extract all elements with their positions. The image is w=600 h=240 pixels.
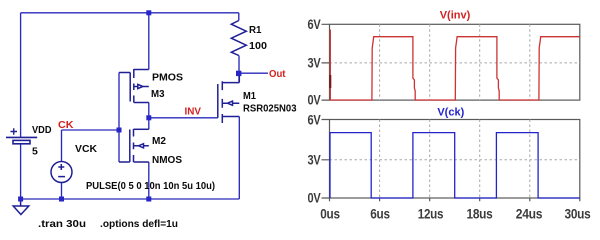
battery VDD (6, 137, 37, 143)
plot V(ck) y ticks (322, 120, 330, 199)
svg-text:30us: 30us (565, 206, 591, 221)
wire PMOS source down to INV node (148, 103, 150, 118)
plot V(inv) gridlines (330, 24, 580, 100)
svg-text:CK: CK (58, 119, 74, 131)
nmos M1 power fet (218, 73, 240, 123)
svg-text:3V: 3V (308, 153, 321, 168)
plot V(ck) blue trace (330, 133, 580, 198)
wire NMOS M2 drain up to INV node (148, 118, 150, 130)
voltage source VCK (51, 162, 72, 183)
svg-text:0us: 0us (320, 206, 340, 221)
plot V(ck) x labels (320, 206, 590, 221)
wire Out stub (239, 72, 268, 74)
plot V(inv) frame (330, 24, 580, 100)
wire NMOS M2 source down to ground rail (148, 162, 150, 199)
wire gate bus vertical PMOS/NMOS gates (118, 73, 120, 163)
svg-text:24us: 24us (516, 206, 543, 221)
svg-text:0V: 0V (308, 93, 321, 108)
wire R1 bottom to Out node to M1 drain (238, 56, 240, 83)
svg-text:12us: 12us (418, 206, 444, 221)
svg-text:18us: 18us (467, 206, 493, 221)
svg-text:V(ck): V(ck) (437, 106, 464, 118)
svg-text:PMOS: PMOS (152, 72, 183, 84)
svg-text:V(inv): V(inv) (440, 10, 471, 22)
wire battery bottom to ground rail (20, 144, 22, 199)
wire R1 top bend (238, 13, 240, 21)
svg-text:INV: INV (185, 106, 202, 118)
wire VCK bottom stub (61, 183, 63, 200)
junction INV node (146, 115, 151, 120)
svg-text:Out: Out (269, 68, 286, 80)
svg-text:6V: 6V (308, 112, 321, 127)
svg-text:VDD: VDD (32, 124, 52, 136)
ground (13, 199, 29, 215)
plot V(ck) frame (330, 120, 580, 199)
junction top rail / PMOS branch (146, 10, 151, 15)
wire VCK top stub (61, 130, 63, 162)
wire PMOS drain branch from top rail (148, 13, 150, 70)
svg-text:NMOS: NMOS (152, 154, 182, 166)
svg-text:100: 100 (249, 40, 267, 52)
plot V(ck) x ticks (330, 198, 580, 201)
wire M1 source / rail corner up (238, 117, 240, 200)
svg-text:.tran 30u: .tran 30u (38, 218, 86, 230)
svg-text:6V: 6V (308, 17, 321, 32)
junction ground rail / M2 source (146, 197, 151, 202)
svg-text:6us: 6us (370, 206, 390, 221)
svg-text:VCK: VCK (75, 143, 97, 155)
svg-text:R1: R1 (249, 24, 262, 36)
svg-text:5: 5 (32, 146, 38, 158)
plot V(ck) y labels (308, 112, 321, 205)
junction Out node (236, 71, 241, 76)
wire INV net horizontal to M1 gate (149, 117, 218, 119)
svg-text:RSR025N03: RSR025N03 (243, 102, 297, 114)
svg-text:M1: M1 (243, 90, 256, 102)
svg-text:PULSE(0 5 0 10n 10n 5u 10u): PULSE(0 5 0 10n 10n 5u 10u) (86, 180, 215, 192)
junction ground rail / VCK (59, 197, 64, 202)
wire top rail VDD net (21, 12, 239, 14)
plot V(inv) y ticks (322, 24, 330, 100)
junction ground rail / battery (18, 197, 23, 202)
svg-text:.options defl=1u: .options defl=1u (100, 218, 178, 230)
nmos M2 (119, 129, 149, 162)
wire CK net horizontal (62, 129, 120, 131)
junction CK / gate bus (117, 128, 122, 133)
resistor R1 (231, 21, 246, 56)
plot V(ck) gridlines (330, 120, 580, 199)
plot V(inv) initial transient dark mark (329, 75, 331, 88)
wire bottom ground rail (21, 198, 240, 200)
svg-text:M2: M2 (152, 135, 166, 147)
plot V(inv) red trace (330, 30, 580, 101)
svg-text:M3: M3 (151, 88, 165, 100)
svg-text:0V: 0V (308, 191, 321, 206)
battery plus sign (11, 128, 18, 135)
pmos M3 (119, 69, 149, 103)
svg-text:3V: 3V (308, 55, 321, 70)
plot V(inv) y labels (308, 17, 321, 108)
wire left vertical from top rail to battery (20, 13, 22, 138)
